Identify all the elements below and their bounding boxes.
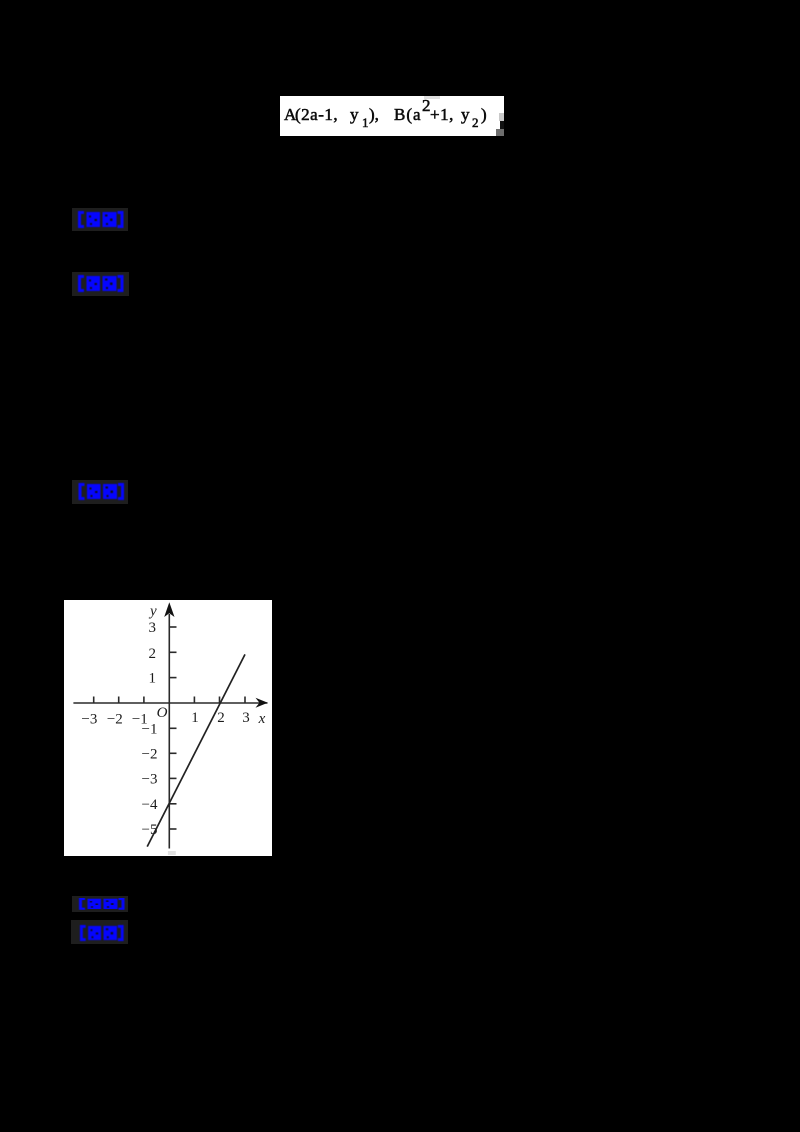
blue stamp label 3 — [72, 480, 128, 504]
svg-text:2: 2 — [217, 710, 225, 726]
labels — [81, 603, 265, 838]
faint gray mark at bottom of y-axis — [168, 851, 176, 855]
graph line y=2x-4 — [147, 654, 245, 846]
x-axis — [73, 702, 267, 704]
x ticks — [94, 697, 245, 704]
svg-text:3: 3 — [242, 710, 250, 726]
svg-text:−5: −5 — [142, 822, 158, 838]
svg-text:1: 1 — [149, 671, 157, 687]
svg-text:O: O — [157, 705, 168, 721]
gray corner block — [496, 129, 504, 136]
svg-text:2: 2 — [149, 646, 157, 662]
svg-text:1: 1 — [191, 710, 199, 726]
blue stamp label 1 — [72, 208, 128, 231]
y ticks — [169, 627, 176, 829]
svg-text:−3: −3 — [81, 712, 97, 728]
x-axis arrowhead — [256, 698, 268, 708]
svg-text:−2: −2 — [142, 746, 158, 762]
svg-text:−1: −1 — [132, 712, 148, 728]
blue stamp label 5 — [71, 920, 128, 944]
svg-text:3: 3 — [149, 620, 157, 636]
svg-text:−2: −2 — [107, 712, 123, 728]
svg-text:−3: −3 — [142, 771, 158, 787]
formula image box: A(2a-1, y1), B(a^2+1, y2) — [280, 96, 504, 136]
blue stamp label 4 — [72, 896, 128, 912]
y-axis — [168, 614, 170, 849]
blue stamp label 2 — [72, 272, 129, 296]
y-axis arrowhead — [164, 602, 174, 617]
graph image box — [64, 600, 272, 856]
svg-text:x: x — [258, 711, 266, 727]
svg-text:y: y — [148, 603, 157, 619]
svg-text:−4: −4 — [142, 797, 158, 813]
shared blue stamp glyph art — [0, 0, 2, 2]
